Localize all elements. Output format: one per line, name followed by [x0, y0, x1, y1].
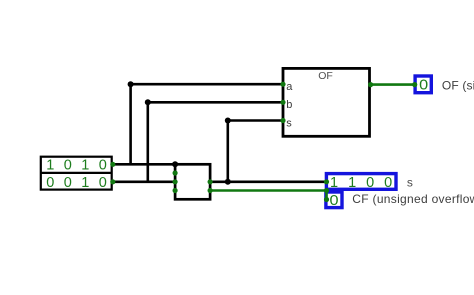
svg-text:1: 1	[81, 175, 89, 191]
svg-text:0: 0	[384, 175, 392, 191]
wire carry vertical to CF pin	[325, 191, 328, 200]
svg-text:CF (unsigned overflow): CF (unsigned overflow)	[352, 192, 474, 206]
wire s branch to OF s	[228, 119, 283, 122]
pin CF display	[324, 197, 329, 202]
input A (1010) and B (0010) stacked boxes	[40, 157, 112, 190]
svg-text:1: 1	[81, 157, 89, 173]
svg-text:0: 0	[99, 157, 107, 173]
wire A branch vertical	[129, 84, 132, 164]
OF output box (blue)	[415, 76, 431, 93]
node carry junction	[324, 188, 329, 193]
input B digits 0 0 1 0	[46, 175, 107, 191]
pin adder sum	[208, 179, 213, 184]
svg-text:1: 1	[348, 175, 356, 191]
pin sum display	[324, 179, 329, 184]
wire sum to display	[210, 181, 326, 184]
svg-text:1: 1	[330, 175, 338, 191]
pin adder a	[173, 170, 178, 175]
pin input B	[110, 179, 115, 184]
node junction sum	[225, 179, 231, 185]
svg-text:0: 0	[64, 175, 72, 191]
svg-text:OF: OF	[318, 70, 333, 82]
svg-text:b: b	[286, 99, 292, 111]
svg-text:a: a	[286, 81, 293, 93]
svg-text:0: 0	[366, 175, 374, 191]
pin OF b	[280, 100, 285, 105]
wires (green)	[210, 85, 415, 200]
CF output box (blue)	[326, 192, 342, 208]
svg-text:OF (signed overflow): OF (signed overflow)	[442, 78, 474, 92]
sum digits 1 1 0 0	[330, 175, 392, 191]
pin adder b	[173, 179, 178, 184]
svg-text:0: 0	[64, 157, 72, 173]
svg-text:1: 1	[46, 157, 54, 173]
pin OF s	[280, 118, 285, 123]
pin adder cout	[208, 188, 213, 193]
adder box	[175, 164, 210, 199]
svg-text:0: 0	[46, 175, 54, 191]
wire B branch to OF b	[148, 101, 283, 104]
wire OF output to O display	[370, 83, 415, 86]
node bend A	[128, 81, 134, 87]
node bend B	[145, 99, 151, 105]
OF pin labels a b s	[286, 81, 293, 130]
wire A horizontal	[113, 163, 177, 166]
svg-text:0: 0	[419, 77, 428, 93]
svg-text:0: 0	[99, 175, 107, 191]
node bend s	[225, 118, 231, 124]
wires (black)	[113, 84, 327, 182]
wire B branch vertical	[147, 102, 150, 182]
wire carry out	[210, 189, 326, 192]
green pin dots	[110, 82, 417, 202]
wire A branch to OF a	[131, 83, 283, 86]
sum display box (blue)	[326, 174, 396, 190]
svg-text:s: s	[407, 176, 413, 190]
pin OF out	[368, 82, 373, 87]
pin adder cin	[173, 188, 178, 193]
black bend/junction dots	[128, 81, 231, 185]
input A digits 1 0 1 0	[46, 157, 107, 173]
svg-text:s: s	[286, 118, 292, 130]
node adder corner	[172, 161, 178, 167]
pin OF a	[280, 82, 285, 87]
wire B horizontal	[113, 181, 177, 184]
OF subcircuit box	[283, 68, 370, 136]
pin input A	[110, 162, 115, 167]
wire s branch vertical	[227, 121, 230, 182]
pin O display	[412, 82, 417, 87]
svg-text:0: 0	[329, 193, 338, 209]
